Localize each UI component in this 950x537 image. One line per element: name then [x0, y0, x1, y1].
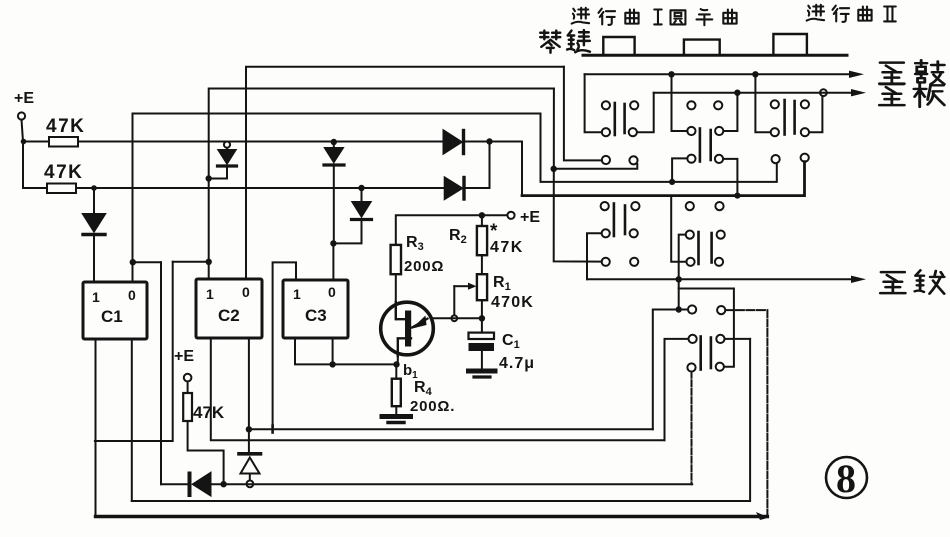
wire R1 bottom to node	[481, 300, 483, 318]
svg-text:+E: +E	[174, 348, 194, 365]
riser of thick bus to bottom switch (dash-dot)	[766, 310, 768, 516]
node zhi-gu / S3 column	[752, 71, 758, 77]
flip-flop box C1	[83, 282, 147, 339]
svg-text:0: 0	[328, 284, 336, 300]
bracket: bus 88.5-line to S4 mid-left contact	[587, 233, 602, 279]
resistor 47K (row 1)	[46, 116, 85, 147]
label: gu (drum)	[915, 60, 944, 84]
label: qin (keys)	[540, 31, 560, 53]
label: qu char7 title1	[723, 9, 736, 23]
capacitor C1 4.7u (electrolytic)	[469, 318, 536, 372]
bus y=66.7 (C2-right column)	[246, 67, 564, 279]
wire bus y=88.5 down at x=553.9	[554, 89, 602, 262]
wiper arrow into R1	[454, 283, 476, 315]
node on bus y=181.9 at x=672.1	[669, 179, 675, 185]
node R1/cap/emitter	[479, 315, 485, 321]
switch S2 contacts (6 circles)	[687, 101, 723, 163]
wire thick-bus down at x=671.2 to S5 lower-left contact	[671, 197, 686, 262]
wire C1 bottom-right down to bus y=501	[131, 339, 133, 501]
resistor 47K (pull-up below C2)	[183, 382, 225, 423]
node zhi-bo / bottom switch column	[676, 276, 682, 282]
switch S4 contact bars	[614, 204, 625, 237]
switch S1 contact bars	[615, 103, 625, 135]
bus y=429.3 to right	[249, 428, 653, 430]
bottom switch S6 top bracket	[679, 289, 734, 367]
wire node up to S2 lower-left contact	[672, 158, 687, 182]
CJK labels drawn as strokes	[540, 5, 944, 294]
wire S6 row2-left to riser x=664.5	[665, 339, 689, 440]
label: zhi (to cymbal)	[880, 272, 905, 293]
wire R3 bottom to transistor	[395, 274, 397, 319]
resistor R3 200ohm	[391, 234, 445, 275]
svg-text:200Ω: 200Ω	[404, 258, 444, 275]
resistor R2 47K with star	[449, 215, 524, 256]
diode D1 (anode left) row1 output	[444, 131, 490, 154]
node emitter junction	[393, 361, 399, 367]
wire +E terminal down to both 47K rows	[22, 120, 24, 188]
diode C (cathode down) row2 to C3, x=361.5	[333, 185, 372, 244]
bus y=501 long run	[132, 339, 750, 501]
wire row2 bus y=188	[23, 187, 445, 189]
node at diode row x=223.6	[220, 481, 226, 487]
diode B (cathode down) row1 to C3, x=333.8	[324, 139, 344, 244]
wire joining D2 up to D1 node	[489, 142, 491, 189]
resistor R4 200ohm	[392, 364, 455, 415]
node R2 top on +E rail	[479, 212, 485, 218]
figure number badge 8	[826, 456, 867, 501]
bracket S5 mid-left contact down to zhi-bo bus	[679, 235, 686, 310]
svg-text:R2: R2	[449, 227, 467, 246]
keyboard baseline	[583, 54, 847, 57]
wire from corner x=172.7 to node	[173, 261, 209, 263]
node x=553.7 y=168.8	[551, 166, 557, 172]
switch S6 contacts	[687, 305, 725, 371]
to-cymbal bus (zhi-bo) y=279.3	[587, 276, 866, 283]
wire bus y=66.7 down at x=563.9 to switch S1 lower-left contact	[564, 67, 602, 161]
key II (waltz)	[684, 40, 720, 56]
wire x=172.7 from stub down to y=441	[95, 262, 173, 441]
switch S5 contact bars	[699, 232, 712, 264]
svg-text:47K: 47K	[46, 116, 85, 137]
wire node up to S2 lower-right contact	[724, 159, 738, 196]
wire C2 bottom-left down then right (long run)	[211, 338, 665, 440]
label: wu char6 title1	[696, 9, 712, 25]
svg-text:+E: +E	[14, 90, 34, 107]
+E terminal (middle, feeds 47K pull-up)	[174, 348, 194, 381]
svg-text:47K: 47K	[44, 162, 83, 183]
label: jian (keys)	[567, 30, 590, 52]
wire node down to S2 mid-left contact	[672, 74, 688, 131]
switch S1 contacts (6 circles)	[602, 101, 639, 164]
bus y=88.5 (C2-left column)	[209, 89, 554, 280]
node C1 top-right	[130, 259, 136, 265]
svg-text:4.7μ: 4.7μ	[499, 355, 535, 372]
svg-text:C1: C1	[101, 307, 123, 326]
flip-flop box C2	[196, 279, 262, 338]
wire transistor bottom to emitter junction	[397, 355, 399, 365]
svg-text:C1: C1	[502, 332, 520, 351]
svg-text:1: 1	[206, 286, 214, 302]
label: bo (cymbal)	[915, 270, 944, 293]
svg-text:R1: R1	[493, 274, 511, 293]
wire 47K down, jog right, down to diode row	[188, 421, 224, 484]
junction riser x=272.6 on bus y=429.3	[271, 426, 274, 433]
label: qu char3 title1	[625, 9, 638, 23]
bus y=113.5 (C1 column)	[133, 114, 541, 283]
wire S6 row1-right to outer riser (dash)	[725, 309, 767, 311]
label: roman I title1	[654, 9, 661, 24]
wire node right/up to S1 lower-right contact	[554, 164, 638, 169]
wire between-boxes riser x=272.6 (to C3 top)	[273, 262, 296, 429]
wire zhi-ban left end down to S1 mid-right contact	[637, 93, 654, 133]
label: roman II title2	[884, 6, 896, 21]
svg-text:1: 1	[92, 289, 100, 305]
svg-text:200Ω.: 200Ω.	[410, 398, 455, 415]
key I (march I)	[603, 37, 634, 55]
thick bottom bus y=516.5	[96, 515, 768, 518]
arrow blob at thick-bus corner	[756, 512, 769, 520]
ground below R4	[382, 406, 411, 422]
key III (march II)	[773, 34, 807, 55]
to-board bus (zhi-ban) y=92.7	[654, 89, 866, 96]
terminal circle on zhi-ban from S3 right contact	[809, 89, 827, 132]
diode D2 (anode left) row2 output	[445, 178, 490, 200]
diode (up-pointing, hollow) below C2-right	[239, 429, 261, 487]
wire +E rail to R3/R2 tops	[396, 215, 508, 245]
label: ban (board)	[914, 82, 944, 107]
wire stub from node to x=161	[133, 261, 161, 263]
label: qu char3 title2	[858, 6, 871, 20]
svg-text:8: 8	[836, 456, 856, 501]
switch S6 contact bars	[701, 337, 711, 370]
svg-text:47K: 47K	[490, 239, 524, 256]
wire D-node right and down to thick bus	[490, 142, 523, 196]
supply terminal +E (left)	[14, 90, 34, 120]
svg-text:0: 0	[128, 287, 136, 303]
svg-text:1: 1	[293, 286, 301, 302]
to-drum bus (zhi-gu) y=74.3	[585, 71, 864, 78]
svg-text:R3: R3	[406, 234, 424, 253]
switch S2 contact bars	[700, 129, 711, 162]
wire S6 row1-left contact to riser x=652.8	[653, 310, 688, 430]
svg-text:0: 0	[242, 284, 250, 300]
node zhi-ban / S2 column	[734, 90, 740, 96]
node row2 at x=94	[91, 185, 97, 191]
wire bus y=113.5 down at x=540.5, becomes bus y=181.9	[541, 114, 777, 182]
svg-text:C3: C3	[305, 306, 327, 325]
thick bus y=195.6 (from diode node)	[522, 162, 805, 196]
node zhi-gu / S2 column	[668, 71, 674, 77]
wire x=161 from stub down to left diode	[160, 262, 162, 484]
wire C3 bottom-left to emitter line	[295, 338, 396, 364]
node C2-bottom-right / bus y=429.3	[246, 426, 252, 432]
label: xing char2 title2	[832, 6, 849, 22]
node on thick bus at x=737.4	[734, 193, 740, 199]
label: zhi (to drum)	[879, 63, 904, 84]
diode (cathode-bar left, points left) on row y=484	[161, 473, 692, 495]
transistor b1	[381, 302, 434, 355]
wiper terminal circle on emitter wire	[451, 315, 457, 321]
svg-text:47K: 47K	[193, 403, 225, 422]
node diode B/C join above C3	[330, 240, 336, 246]
switch S4 (middle-left) contacts	[601, 202, 640, 266]
label: yuan char5 title1	[670, 10, 685, 24]
switch S5 (middle-right) contacts	[686, 202, 725, 266]
flip-flop box C3	[283, 280, 348, 338]
switch S3 contacts (6 circles)	[771, 100, 809, 163]
wire zhi-gu left end down to S1 contact	[585, 74, 602, 132]
+E terminal (amplifier)	[507, 209, 540, 226]
node C3-bottom-right on emitter line	[329, 361, 335, 367]
label: jin char1 title2	[807, 5, 824, 21]
wire transistor emitter lead right	[434, 317, 482, 319]
resistor R1 470K (variable)	[477, 255, 534, 311]
wire C3 bottom-right down	[332, 338, 334, 364]
svg-text:+E: +E	[520, 209, 540, 226]
label: jin (march) char1 title1	[572, 8, 589, 24]
diode A (cathode down) row1 to C2-left, with terminal circle	[209, 142, 237, 179]
node diode A to C2-left column	[206, 175, 212, 181]
wire node down to S2 mid-right contact	[724, 93, 738, 131]
wire S6 row2-right to riser x=750.1	[725, 338, 751, 340]
ground below C1 cap	[469, 351, 496, 377]
resistor 47K (row 2)	[44, 162, 83, 193]
wire S6 row3-left down to diode row (dash-dot)	[691, 372, 693, 485]
label: zhi (to board)	[879, 84, 904, 105]
svg-text:C2: C2	[218, 306, 240, 325]
diode (cathode down) feeding C1, on x=94	[83, 188, 105, 282]
wire node down to S3 mid-left contact	[755, 74, 770, 132]
wire row1 bus y=141.5	[23, 141, 444, 143]
switch S3 contact bars	[785, 100, 795, 135]
label: xing char2 title1	[598, 9, 615, 25]
wire C2 bottom-right down to node	[248, 338, 250, 429]
wire C1 bottom-left down to thick bottom bus	[95, 339, 97, 517]
wire node down into C3 top	[332, 243, 334, 280]
node S6 row1 feed	[676, 306, 682, 312]
node on row1 wire	[21, 139, 27, 145]
node D1/D2 outputs joined	[486, 138, 492, 144]
node C2 top-left	[206, 259, 212, 265]
svg-text:470K: 470K	[491, 294, 534, 311]
svg-text:R4: R4	[414, 379, 433, 398]
